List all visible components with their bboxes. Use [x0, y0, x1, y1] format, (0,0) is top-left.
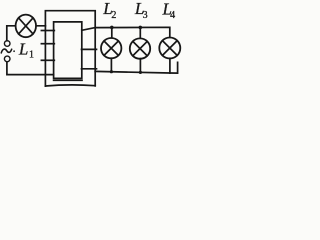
svg-text:L: L: [18, 39, 28, 58]
svg-text:2: 2: [111, 10, 116, 21]
svg-text:4: 4: [170, 10, 175, 21]
svg-text:3: 3: [143, 10, 148, 21]
svg-text:1: 1: [29, 49, 34, 60]
